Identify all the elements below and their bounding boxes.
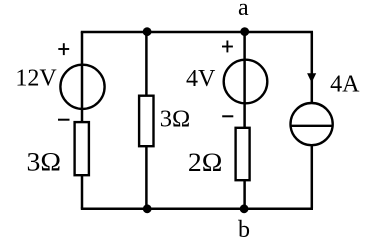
wire right branch lower	[311, 145, 314, 208]
voltage source V2 4V	[224, 60, 268, 104]
svg-text:3Ω: 3Ω	[27, 148, 62, 177]
wire third branch lower	[243, 179, 246, 209]
current direction arrow of I1	[307, 73, 316, 83]
resistor R2 3ohm middle	[139, 96, 153, 147]
label - (V2 minus)	[222, 115, 233, 117]
wire middle branch lower	[145, 146, 148, 208]
resistor R1 3ohm left	[75, 122, 89, 175]
wire bottom (node b rail)	[81, 207, 313, 210]
node junction dot top middle	[143, 27, 152, 36]
label - (V1 minus)	[58, 119, 70, 121]
label + (V2 plus)	[222, 41, 233, 53]
svg-text:2Ω: 2Ω	[188, 148, 223, 177]
svg-text:4V: 4V	[186, 66, 216, 92]
current source I1 bar	[291, 125, 332, 127]
wire left branch lower	[81, 175, 84, 208]
svg-text:b: b	[238, 217, 250, 243]
wire left branch vertical	[81, 32, 84, 122]
wire right branch upper	[311, 32, 314, 103]
current source I1 4A	[291, 103, 333, 145]
wire middle branch upper	[145, 32, 148, 96]
node a junction dot	[240, 27, 249, 36]
voltage source V1 12V	[60, 65, 104, 109]
svg-text:4A: 4A	[330, 72, 360, 98]
svg-text:a: a	[238, 0, 249, 21]
wire third branch vertical	[243, 32, 246, 128]
node b junction dot	[240, 204, 249, 213]
label + (V1 plus)	[58, 43, 69, 55]
node junction dot bottom middle	[143, 204, 152, 213]
resistor R3 2ohm	[236, 128, 250, 180]
svg-text:3Ω: 3Ω	[160, 106, 191, 132]
svg-text:12V: 12V	[15, 66, 57, 92]
wire top (node a rail)	[81, 31, 313, 34]
